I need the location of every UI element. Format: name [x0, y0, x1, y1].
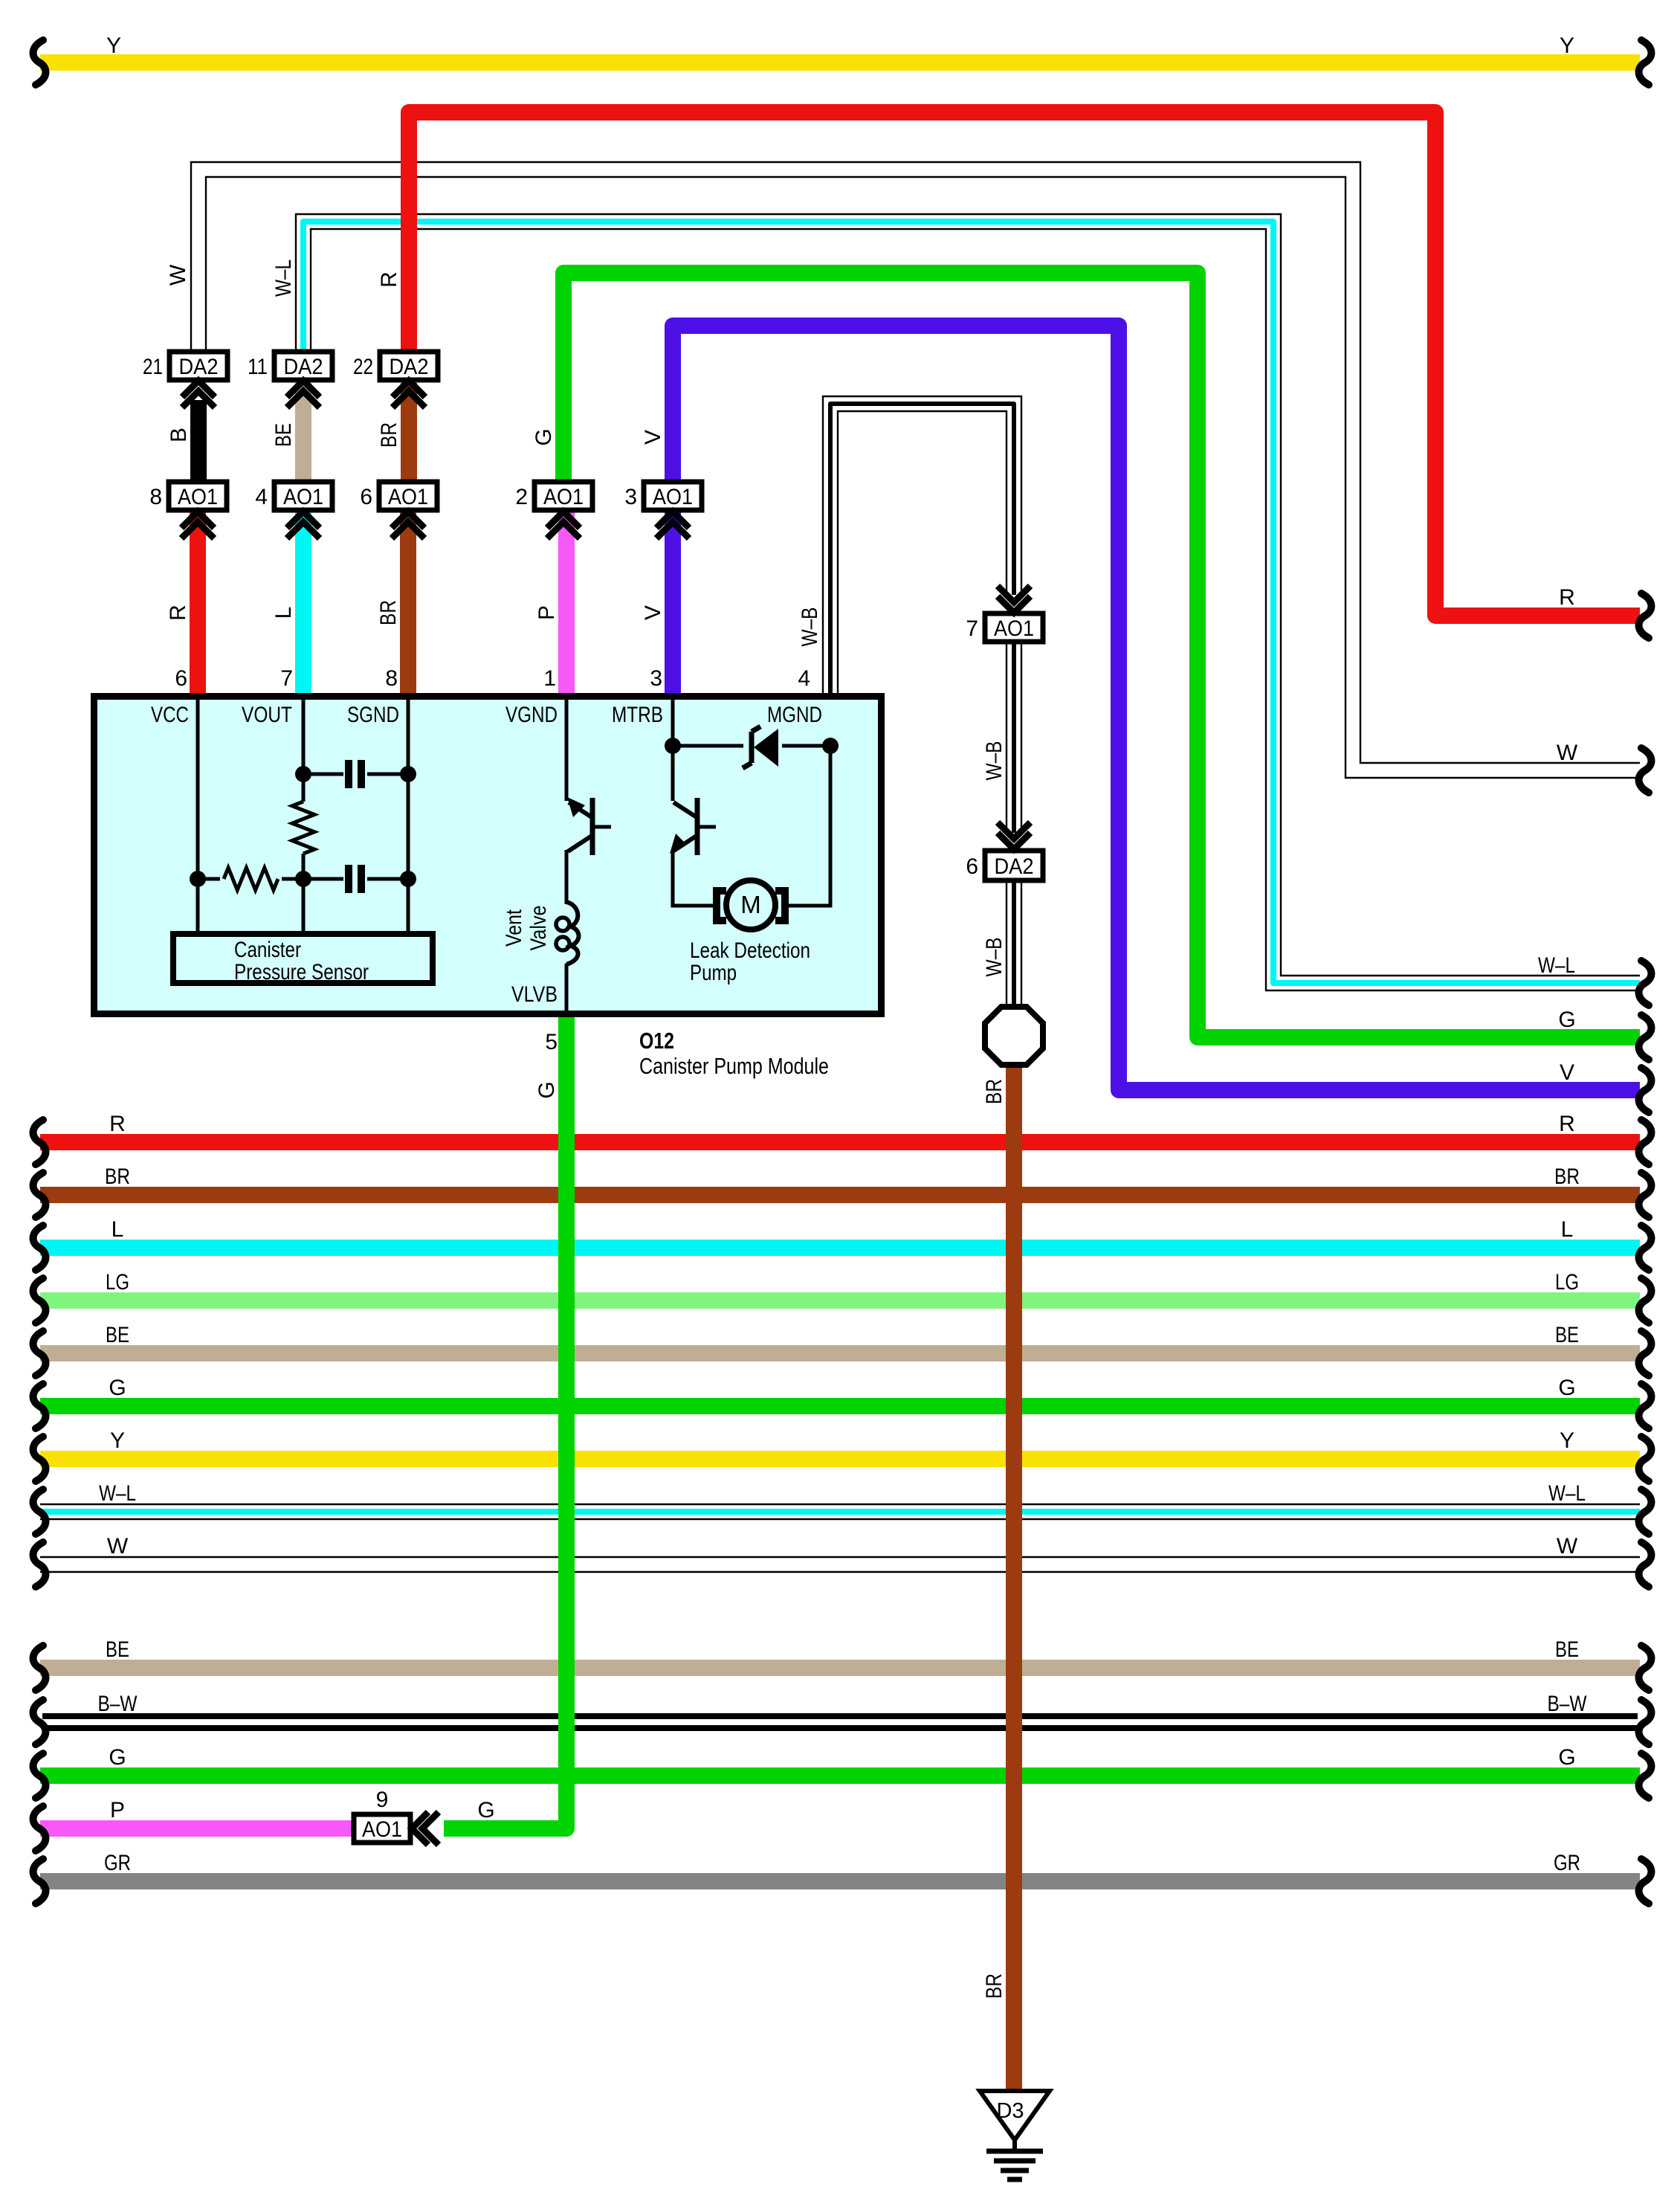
resistor R1 — [292, 802, 314, 854]
wire V to pin 3 — [665, 509, 681, 696]
svg-text:BE: BE — [271, 423, 296, 447]
svg-text:W: W — [107, 1534, 129, 1559]
wire W-B AO1-7 to DA2-6 — [1021, 642, 1022, 833]
svg-text:B–W: B–W — [98, 1692, 138, 1716]
arrows into AO1-7 — [998, 596, 1030, 613]
svg-text:3: 3 — [650, 666, 662, 691]
wire VOUT internal — [302, 700, 306, 931]
svg-text:MTRB: MTRB — [612, 703, 663, 727]
svg-text:W–L: W–L — [99, 1481, 136, 1506]
arrows into DA2-21 — [182, 381, 215, 397]
harness break L left — [33, 1225, 46, 1270]
harness break GR right2 — [1639, 1859, 1652, 1904]
svg-text:5: 5 — [545, 1030, 558, 1054]
svg-text:1: 1 — [543, 666, 556, 691]
harness break Y left — [33, 1437, 46, 1481]
connector DA2 pin 11 — [274, 352, 332, 380]
svg-text:P: P — [534, 605, 559, 620]
wire BR bus — [40, 1187, 1640, 1203]
junction SGND/C1 — [400, 766, 416, 782]
harness break B–W left2 — [33, 1700, 46, 1744]
svg-text:R: R — [1559, 585, 1575, 610]
wire P bus — [40, 1820, 355, 1837]
svg-text:SGND: SGND — [347, 703, 399, 727]
connector AO1 pin 6 — [379, 482, 437, 510]
svg-text:3: 3 — [624, 485, 637, 509]
svg-text:VentValve: VentValve — [502, 906, 551, 951]
wire to vent valve coil — [565, 850, 569, 904]
svg-text:BE: BE — [1555, 1323, 1579, 1347]
wire R to pin 6 — [190, 509, 206, 696]
svg-text:L: L — [1561, 1217, 1574, 1242]
harness break BE right2 — [1639, 1646, 1652, 1690]
svg-text:O12: O12 — [639, 1028, 674, 1054]
wire G bus — [40, 1767, 1640, 1784]
wire Y bus — [40, 1451, 1640, 1467]
wire V from AO1-3 to right edge — [673, 326, 1640, 1090]
svg-text:BR: BR — [982, 1973, 1007, 1999]
wire BR to pin 8 — [400, 509, 416, 696]
svg-text:G: G — [1558, 1008, 1575, 1032]
svg-text:LG: LG — [106, 1270, 129, 1295]
transistor Q2 — [695, 798, 700, 855]
harness break P left — [33, 1806, 46, 1851]
svg-text:AO1: AO1 — [283, 485, 323, 509]
wire R bus — [40, 1134, 1640, 1150]
svg-text:G: G — [1558, 1376, 1575, 1400]
harness break Y right — [1639, 40, 1652, 85]
wire G from VLVB pin 5 down to AO1-9 — [444, 1016, 566, 1828]
harness break Y right — [1639, 1437, 1652, 1481]
svg-text:G: G — [109, 1745, 126, 1770]
svg-text:Canister Pump Module: Canister Pump Module — [639, 1053, 829, 1079]
svg-text:G: G — [109, 1376, 126, 1400]
svg-text:B: B — [167, 428, 191, 442]
svg-text:9: 9 — [376, 1788, 389, 1812]
harness break G left2 — [33, 1753, 46, 1798]
connector AO1 pin 2 — [534, 482, 592, 510]
svg-text:Y: Y — [106, 33, 121, 58]
wire BR between DA2-22 and AO1-6 — [401, 383, 417, 491]
svg-text:7: 7 — [966, 616, 978, 641]
svg-text:W–B: W–B — [982, 938, 1007, 977]
wire R from DA2-22 to right edge — [409, 112, 1640, 616]
motor M leak detection pump — [726, 880, 775, 929]
harness break W-L right — [1639, 961, 1652, 1005]
svg-text:G: G — [477, 1798, 494, 1823]
junction VOUT/C1 — [295, 766, 311, 782]
harness break B–W right2 — [1639, 1700, 1652, 1744]
svg-text:D3: D3 — [996, 2099, 1024, 2123]
svg-text:W–B: W–B — [798, 608, 822, 647]
svg-text:VGND: VGND — [505, 703, 558, 727]
junction VOUT/R2/C2 — [295, 871, 311, 887]
svg-text:R: R — [166, 605, 190, 621]
svg-text:Y: Y — [1560, 33, 1574, 58]
svg-text:W–L: W–L — [1548, 1481, 1586, 1506]
harness break G left — [33, 1384, 46, 1428]
harness break R right — [1639, 593, 1652, 638]
arrows into AO1 — [547, 512, 580, 528]
wire diode row — [673, 744, 830, 748]
svg-text:AO1: AO1 — [388, 485, 428, 509]
svg-text:V: V — [1560, 1060, 1574, 1085]
harness break LG right — [1639, 1278, 1652, 1323]
svg-text:7: 7 — [280, 666, 293, 691]
inductor vent valve coil — [566, 902, 579, 964]
canister pressure sensor box — [173, 934, 433, 983]
svg-text:BE: BE — [106, 1637, 129, 1662]
junction MGND/diode — [822, 738, 839, 754]
svg-text:R: R — [377, 271, 401, 288]
connector AO1 pin 7 — [985, 613, 1043, 642]
wire B-W bus — [42, 1713, 1638, 1719]
svg-text:6: 6 — [175, 666, 187, 691]
connector DA2 pin 21 — [169, 352, 227, 380]
wire BR from octagon to ground — [1006, 1062, 1022, 2091]
wire Q2 emitter to motor — [673, 850, 713, 906]
wire cap row top — [303, 773, 408, 776]
harness break BR right — [1639, 1173, 1652, 1217]
connector AO1 pin 8 — [169, 482, 227, 510]
svg-text:V: V — [641, 605, 665, 620]
svg-text:Canister: Canister — [234, 938, 301, 962]
wire row bottom — [198, 877, 408, 881]
svg-text:P: P — [110, 1798, 125, 1823]
arrows into AO1 — [656, 512, 689, 528]
arrows into AO1-9 — [412, 1812, 428, 1845]
arrows into AO1 — [287, 512, 320, 528]
harness break LG left — [33, 1278, 46, 1323]
splice octagon — [985, 1007, 1043, 1065]
svg-text:B–W: B–W — [1548, 1692, 1588, 1716]
harness break R right — [1639, 1120, 1652, 1164]
harness break G right — [1639, 1015, 1652, 1060]
svg-text:2: 2 — [515, 485, 528, 509]
svg-text:4: 4 — [255, 485, 268, 509]
harness break R left — [33, 1120, 46, 1164]
svg-text:BE: BE — [106, 1323, 129, 1347]
svg-text:BR: BR — [1554, 1164, 1580, 1189]
svg-text:W–B: W–B — [982, 741, 1007, 781]
wire W-B DA2-6 to octagon — [1021, 880, 1022, 1008]
svg-text:VCC: VCC — [151, 703, 189, 727]
capacitor C1 — [345, 760, 352, 788]
wire Y top bus — [40, 54, 1640, 71]
svg-text:4: 4 — [798, 666, 810, 691]
harness break W left — [33, 1542, 46, 1587]
resistor R2 — [224, 868, 278, 890]
transistor Q1 — [590, 798, 595, 855]
arrows into DA2-22 — [392, 381, 425, 397]
svg-text:Leak Detection: Leak Detection — [690, 938, 810, 963]
wire MGND internal — [789, 746, 830, 906]
arrows into AO1 — [181, 512, 214, 528]
wire W (white) from DA2-21 to right edge — [191, 162, 1640, 763]
wire W-B from pin 4 to AO1-7 — [823, 396, 1021, 696]
harness break BE right — [1639, 1331, 1652, 1376]
svg-text:22: 22 — [353, 355, 373, 379]
svg-text:V: V — [641, 430, 665, 445]
svg-text:BR: BR — [377, 422, 401, 448]
svg-text:6: 6 — [360, 485, 372, 509]
connector AO1 pin 9 — [354, 1814, 410, 1843]
wire G from AO1-2 to right edge — [563, 273, 1640, 1037]
svg-text:AO1: AO1 — [994, 616, 1034, 641]
connector AO1 pin 3 — [644, 482, 702, 510]
svg-text:11: 11 — [248, 355, 268, 379]
harness break L right — [1639, 1225, 1652, 1270]
svg-text:VLVB: VLVB — [511, 982, 558, 1007]
svg-text:BR: BR — [376, 600, 401, 625]
ground D3 — [980, 2091, 1050, 2140]
harness break W right — [1639, 748, 1652, 793]
zener diode — [743, 725, 782, 768]
connector DA2 pin 6 — [985, 851, 1043, 880]
svg-text:G: G — [1558, 1745, 1575, 1770]
wire W-L bus — [40, 1504, 1640, 1505]
svg-text:L: L — [112, 1217, 124, 1242]
wire BE bus — [40, 1660, 1640, 1676]
svg-text:DA2: DA2 — [284, 355, 323, 379]
wire SGND internal — [407, 700, 410, 931]
wire VCC internal — [196, 700, 200, 931]
svg-text:MGND: MGND — [767, 703, 822, 727]
module O12 Canister Pump Module box — [94, 697, 882, 1014]
wire G bus — [40, 1398, 1640, 1414]
svg-text:W–L: W–L — [271, 260, 296, 297]
svg-text:BR: BR — [105, 1164, 130, 1189]
svg-text:Y: Y — [1560, 1428, 1574, 1453]
junction SGND/C2 — [400, 871, 416, 887]
svg-text:R: R — [109, 1112, 126, 1136]
svg-text:21: 21 — [143, 355, 163, 379]
junction VCC/R2 — [190, 871, 206, 887]
svg-text:Pump: Pump — [690, 961, 737, 985]
harness break G right2 — [1639, 1753, 1652, 1798]
wire MTRB internal — [671, 700, 675, 801]
svg-text:W: W — [1557, 1534, 1578, 1559]
svg-text:Pressure Sensor: Pressure Sensor — [234, 960, 369, 985]
harness break W–L right — [1639, 1489, 1652, 1534]
harness break BE left — [33, 1331, 46, 1376]
wire VLVB internal — [565, 964, 569, 1014]
connector DA2 pin 22 — [380, 352, 438, 380]
junction MTRB/diode — [665, 738, 681, 754]
svg-text:VOUT: VOUT — [242, 703, 292, 727]
svg-text:G: G — [534, 1081, 559, 1098]
harness break V right — [1639, 1068, 1652, 1112]
arrows into AO1 — [392, 512, 424, 528]
harness break G right — [1639, 1384, 1652, 1428]
connector AO1 pin 4 — [274, 482, 332, 510]
svg-text:8: 8 — [149, 485, 162, 509]
arrows into DA2-11 — [287, 381, 320, 397]
svg-text:DA2: DA2 — [390, 355, 429, 379]
svg-text:GR: GR — [1554, 1851, 1580, 1875]
arrows into DA2-6 — [998, 833, 1030, 849]
harness break Y left — [33, 40, 46, 85]
svg-text:AO1: AO1 — [178, 485, 218, 509]
harness break W right — [1639, 1542, 1652, 1587]
svg-text:6: 6 — [966, 854, 978, 879]
wire LG bus — [40, 1292, 1640, 1309]
svg-text:W: W — [166, 264, 190, 286]
wire P to pin 1 — [558, 509, 575, 696]
harness break BR left — [33, 1173, 46, 1217]
svg-text:BR: BR — [982, 1079, 1007, 1104]
capacitor C2 — [345, 865, 352, 893]
svg-text:DA2: DA2 — [179, 355, 219, 379]
svg-text:Y: Y — [110, 1428, 125, 1453]
wire BE between DA2-11 and AO1-4 — [295, 383, 311, 491]
svg-text:G: G — [532, 428, 556, 445]
svg-text:AO1: AO1 — [362, 1817, 402, 1842]
wire L bus — [40, 1240, 1640, 1256]
svg-text:M: M — [740, 891, 761, 918]
svg-text:8: 8 — [385, 666, 398, 691]
svg-text:R: R — [1559, 1112, 1575, 1136]
wire GR bus — [40, 1873, 1640, 1889]
wire BE bus — [40, 1345, 1640, 1361]
wire VGND internal — [565, 700, 569, 801]
wire B between DA2-21 and AO1-8 — [190, 400, 207, 491]
svg-text:L: L — [271, 607, 296, 619]
wire L to pin 7 — [295, 509, 311, 696]
svg-text:LG: LG — [1555, 1270, 1579, 1295]
harness break W–L left — [33, 1489, 46, 1534]
wire W bus — [40, 1556, 1640, 1558]
wire W-L from DA2-11 to right edge — [296, 214, 1640, 976]
svg-text:AO1: AO1 — [653, 485, 693, 509]
svg-text:GR: GR — [104, 1851, 131, 1875]
harness break GR left2 — [33, 1859, 46, 1904]
svg-text:BE: BE — [1555, 1637, 1579, 1662]
svg-text:DA2: DA2 — [995, 854, 1034, 879]
harness break BE left2 — [33, 1646, 46, 1690]
svg-text:W: W — [1557, 741, 1578, 765]
svg-text:W–L: W–L — [1538, 953, 1575, 978]
svg-text:AO1: AO1 — [543, 485, 584, 509]
